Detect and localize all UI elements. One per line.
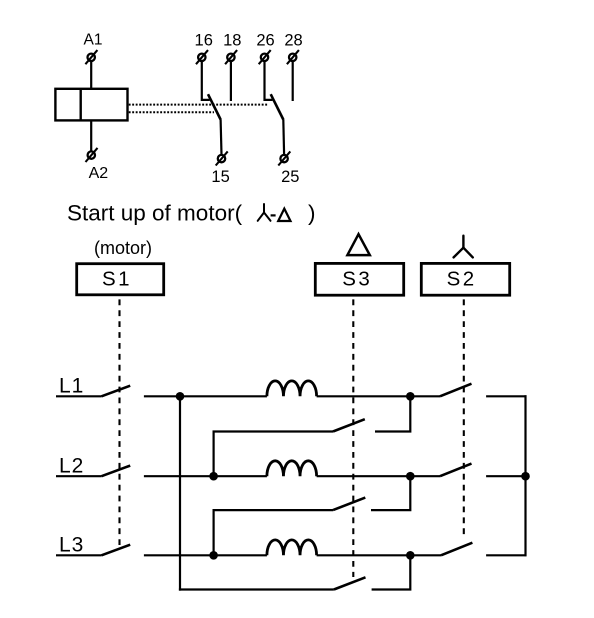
wire 26 fixed contact	[265, 62, 273, 100]
wire 18 stub	[230, 62, 232, 101]
terminal 28	[287, 50, 299, 64]
dash in title	[271, 214, 276, 216]
node L1 left bus	[176, 392, 185, 401]
terminal 25	[278, 151, 290, 165]
motor winding W1	[267, 381, 317, 396]
svg-text:S2: S2	[447, 268, 477, 291]
motor winding W3	[267, 540, 317, 555]
delta symbol in title	[278, 209, 290, 221]
node right bus L2	[521, 472, 530, 481]
delta branch L2-L3: wire L3 node up and right	[214, 510, 333, 555]
motor winding W2	[267, 461, 317, 476]
wire L2 to winding	[144, 475, 267, 477]
switch blade L3 (S1)	[102, 545, 131, 556]
wire 28 stub	[292, 62, 294, 101]
svg-text:(motor): (motor)	[94, 238, 152, 258]
wire A1 to coil	[90, 62, 92, 89]
wire blade to L1 out node	[375, 396, 410, 431]
svg-text:25: 25	[281, 168, 299, 186]
svg-text:L1: L1	[59, 375, 84, 398]
relay coil K1	[55, 89, 127, 121]
wire W1 out	[317, 395, 440, 397]
svg-text:26: 26	[256, 32, 274, 50]
switch blade L2 (S2)	[440, 464, 472, 477]
wire W3 out	[317, 554, 441, 556]
svg-text:L2: L2	[59, 455, 84, 478]
wire blade to L3 out node	[372, 555, 411, 589]
svg-text:A1: A1	[84, 32, 103, 49]
svg-text:L3: L3	[59, 534, 84, 557]
switch blade L3-L1 (S3)	[334, 577, 366, 589]
wire L1 to winding	[144, 395, 267, 397]
wire L1 in	[56, 395, 102, 397]
star symbol above S2	[454, 236, 473, 258]
switch blade L2 (S1)	[102, 466, 131, 477]
wire 16 fixed contact	[202, 62, 210, 100]
left bus wire (L1 node to bottom rail)	[179, 396, 181, 590]
coil-to-contact link (dotted, upper)	[129, 104, 269, 106]
wire W2 out	[317, 475, 440, 477]
svg-text:28: 28	[284, 32, 302, 50]
terminal 16	[196, 50, 208, 64]
terminal 26	[259, 50, 271, 64]
wire L2 in	[56, 475, 102, 477]
switch blade L2-L3 (S3)	[333, 498, 365, 511]
wire coil to A2	[90, 120, 92, 150]
wire blade to terminal 15	[220, 119, 223, 154]
terminal A1	[85, 50, 97, 64]
wire blade to L2 out node	[371, 476, 410, 510]
wire L3 in	[56, 554, 102, 556]
svg-text:S3: S3	[342, 268, 372, 291]
contact blade 26-25	[271, 94, 284, 119]
star symbol in title	[258, 204, 271, 221]
switch S1 box	[77, 264, 164, 295]
svg-text:18: 18	[223, 32, 241, 50]
svg-text:S1: S1	[102, 268, 132, 291]
wire L3 to winding	[144, 554, 267, 556]
terminal 15	[216, 151, 228, 165]
delta branch L1-L2: wire L2 node up and right	[214, 432, 333, 477]
node L3 in (delta link)	[209, 551, 218, 560]
terminal A2	[86, 148, 98, 162]
bottom rail wire	[179, 588, 334, 590]
coil-to-contact link (dotted, lower)	[129, 111, 214, 113]
delta symbol above S3	[347, 234, 369, 255]
node L2 in (delta link)	[209, 472, 218, 481]
S3 linkage (dashed)	[352, 299, 354, 577]
terminal 18	[225, 50, 237, 64]
right bus wire (star point)	[524, 395, 526, 556]
svg-text:16: 16	[195, 32, 213, 50]
switch blade L1 (S1)	[102, 386, 131, 397]
switch blade L1-L2 (S3)	[333, 419, 365, 431]
switch S2 box	[421, 263, 509, 295]
switch blade L1 (S2)	[440, 384, 472, 397]
switch blade L3 (S2)	[441, 543, 472, 556]
switch S3 box	[315, 263, 403, 295]
node L1 out	[406, 392, 415, 401]
wire L1 to right bus	[486, 395, 526, 397]
contact blade 16-15	[208, 94, 221, 119]
wire L3 to right bus	[486, 554, 526, 556]
node L2 out	[406, 472, 415, 481]
S1 linkage (dashed)	[118, 299, 120, 548]
S2 linkage (dashed)	[463, 299, 465, 537]
svg-text:): )	[308, 201, 316, 226]
wire blade to terminal 25	[282, 119, 285, 154]
wire L2 to right bus	[486, 475, 525, 477]
svg-text:Start up of motor(: Start up of motor(	[67, 201, 243, 226]
svg-text:A2: A2	[89, 165, 109, 182]
svg-text:15: 15	[211, 168, 229, 186]
node L3 out	[406, 551, 415, 560]
